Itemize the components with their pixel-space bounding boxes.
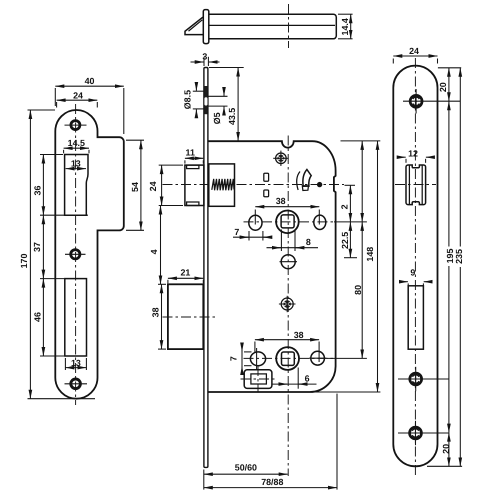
faceplate edge-on bar <box>204 68 208 468</box>
svg-text:13: 13 <box>71 358 81 368</box>
svg-text:14.4: 14.4 <box>340 18 350 35</box>
bottom follower circle <box>276 347 299 370</box>
dim 24 (latch) <box>161 165 163 205</box>
screw hole middle <box>71 250 80 259</box>
dim 7 ext lines <box>248 231 250 241</box>
svg-text:46: 46 <box>32 312 42 322</box>
dim 12 ext lines <box>405 159 407 163</box>
dim 14.4 <box>350 14 352 39</box>
backset ext line right <box>336 394 338 490</box>
cylinder cam inner <box>251 374 267 384</box>
face plate outline <box>393 66 437 467</box>
bottom ext line <box>427 465 462 467</box>
dim 21 ext lines <box>167 280 169 284</box>
svg-text:24: 24 <box>73 90 83 100</box>
svg-text:235: 235 <box>454 249 464 264</box>
countersink hole in section <box>204 97 207 105</box>
dim 8 (square) <box>267 247 319 249</box>
svg-text:20: 20 <box>438 82 448 92</box>
dim 36 <box>42 155 44 216</box>
dim Ø5 <box>223 89 225 96</box>
top screw hole <box>410 95 422 107</box>
svg-text:38: 38 <box>276 196 286 206</box>
dim 21 <box>168 277 203 279</box>
svg-text:6: 6 <box>305 373 310 383</box>
svg-text:4: 4 <box>149 249 159 254</box>
trigger pin dot <box>317 182 322 187</box>
dim 14.5 <box>63 150 65 154</box>
faceplate bar (side view) <box>203 10 209 44</box>
dim 80 upper segment <box>361 141 363 222</box>
centerline <box>288 4 290 48</box>
plate section hatch <box>204 86 207 114</box>
backset ext line left <box>203 470 205 490</box>
dim 3 (plate thickness) <box>203 57 205 66</box>
small circle below follower <box>281 255 295 269</box>
dim 7 (hole width) <box>233 236 271 238</box>
bottom screw hole <box>410 427 422 439</box>
svg-text:11: 11 <box>186 147 195 157</box>
dim 43.5 <box>237 68 239 141</box>
case bottom ext line <box>313 391 380 393</box>
follower circle <box>276 211 299 234</box>
top screw boss <box>276 153 287 164</box>
latch bolt head <box>185 165 204 205</box>
dim 4 <box>160 206 162 285</box>
dim 195 <box>448 101 450 432</box>
latch bolt body <box>209 14 336 39</box>
svg-text:13: 13 <box>71 159 81 169</box>
dim 11 ext lines <box>184 160 186 163</box>
small slot upper <box>264 173 269 181</box>
middle screw boss <box>281 298 293 310</box>
dim 38 (cylinder holes) <box>255 339 319 341</box>
dim Ø5 ext lines <box>208 95 227 97</box>
latch head top bevel notch <box>187 165 199 169</box>
cylinder cam outer <box>244 370 272 389</box>
svg-text:170: 170 <box>19 254 29 269</box>
dim 40 <box>54 88 56 106</box>
plate centerline <box>75 104 77 405</box>
dim 38 (handle holes) <box>255 206 319 208</box>
cylinder circle left <box>250 352 265 366</box>
dim 6 ext line <box>297 368 299 389</box>
svg-text:7: 7 <box>228 356 238 361</box>
dim 7 (cylinder hole) <box>241 344 243 373</box>
cluster centerline extension right <box>334 221 367 223</box>
dim 9 ext lines <box>407 283 409 288</box>
svg-text:38: 38 <box>150 307 160 317</box>
bottom right hole <box>311 351 325 365</box>
lock case outline <box>208 141 336 392</box>
svg-text:3: 3 <box>202 51 207 61</box>
deadbolt window <box>65 279 87 356</box>
bottom follower square <box>282 352 295 365</box>
svg-text:50/60: 50/60 <box>235 462 257 472</box>
dim 38 deadbolt ext lines <box>158 283 166 285</box>
svg-text:21: 21 <box>180 268 190 278</box>
dim 8 ext lines <box>280 230 282 252</box>
svg-text:148: 148 <box>365 247 375 262</box>
svg-text:36: 36 <box>32 186 42 196</box>
dim 20 bottom <box>448 433 450 467</box>
dim 38 (deadbolt height) <box>161 284 163 349</box>
dim 80 bottom ext <box>327 357 367 359</box>
dim 37 <box>40 278 64 280</box>
dim 43.5 ext line <box>209 67 244 69</box>
lever foot <box>302 186 308 191</box>
dim 24 ext lines <box>392 59 394 64</box>
latch tail box <box>209 164 235 206</box>
dim 78/88 <box>204 487 337 489</box>
bolt body mid line <box>209 24 335 26</box>
svg-text:20: 20 <box>441 444 451 454</box>
dim 24 top <box>393 55 437 57</box>
dim 22.5 <box>344 257 357 259</box>
dim 24 <box>56 102 58 108</box>
dim 170 <box>28 109 56 111</box>
follower square <box>281 215 294 228</box>
dim 7 vertical ext lines <box>244 351 252 353</box>
case top ext line <box>341 140 381 142</box>
svg-text:2: 2 <box>340 204 350 209</box>
lever crescent body <box>303 170 311 187</box>
plate centerline <box>414 58 416 476</box>
lower slot <box>408 286 423 349</box>
latch spring <box>212 179 234 190</box>
latch window <box>65 155 88 216</box>
middle screw hole <box>410 373 422 385</box>
deadbolt centerline <box>163 316 219 318</box>
top ext line <box>438 67 461 69</box>
dim 38 bottom ext lines <box>254 342 256 353</box>
dim 20 top <box>448 68 450 101</box>
svg-text:40: 40 <box>85 76 95 86</box>
screw hole bottom <box>71 379 81 389</box>
svg-text:22.5: 22.5 <box>340 232 350 249</box>
svg-text:54: 54 <box>130 182 140 192</box>
svg-text:12: 12 <box>408 149 418 159</box>
dim 235 <box>459 68 461 467</box>
svg-text:43.5: 43.5 <box>227 108 237 125</box>
svg-text:Ø8.5: Ø8.5 <box>183 90 193 109</box>
bottom cluster centerline <box>244 357 335 359</box>
cluster centerline <box>244 221 335 223</box>
dim 50/60 <box>204 473 288 475</box>
dim 14.4 extension lines <box>338 13 353 15</box>
svg-text:38: 38 <box>294 330 304 340</box>
dim 13 top <box>66 168 86 170</box>
svg-text:Ø5: Ø5 <box>212 112 222 124</box>
dim 80 <box>361 222 363 359</box>
dim 6 <box>272 383 317 385</box>
dim 38 top ext lines <box>254 210 256 225</box>
dim 2 <box>345 184 356 186</box>
dim 12 <box>399 156 406 158</box>
latch head bottom bevel notch <box>187 202 199 206</box>
left handle hole <box>249 215 262 230</box>
dim 24 ext lines <box>159 164 183 166</box>
svg-text:24: 24 <box>148 181 158 191</box>
svg-text:80: 80 <box>353 285 363 295</box>
latch bolt head bevel (wedge) <box>185 17 203 34</box>
dim 36 extension lines <box>40 154 63 156</box>
case vertical centerline <box>287 136 289 477</box>
deadbolt <box>168 284 203 349</box>
svg-text:8: 8 <box>306 237 311 247</box>
dim 46 <box>40 355 64 357</box>
dim 54 <box>126 139 144 141</box>
latch window centerline <box>395 184 436 186</box>
small slot lower <box>264 190 269 197</box>
right handle hole <box>314 215 326 229</box>
cylinder crosshair <box>241 378 276 380</box>
bevel inner edge <box>189 20 203 31</box>
dim Ø8.5 <box>195 84 197 91</box>
svg-text:37: 37 <box>32 242 42 252</box>
svg-text:9: 9 <box>410 268 415 278</box>
strike plate outline <box>55 110 124 399</box>
dim 13 bottom <box>64 358 66 370</box>
lever crescent thin arc <box>297 172 300 191</box>
latch centerline <box>163 184 345 186</box>
svg-text:78/88: 78/88 <box>261 477 283 487</box>
svg-text:24: 24 <box>409 46 419 56</box>
screw hole top <box>71 121 80 130</box>
dim 11 <box>185 157 203 159</box>
dim 9 <box>401 281 408 283</box>
latch window (spool) <box>406 165 426 205</box>
dim 148 <box>377 141 379 392</box>
dim Ø8.5 ext lines <box>193 90 204 92</box>
svg-text:14.5: 14.5 <box>68 138 85 148</box>
svg-text:7: 7 <box>234 227 239 237</box>
